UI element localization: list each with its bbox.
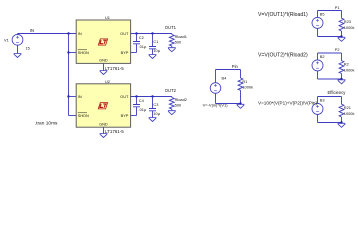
svg-text:C1: C1	[153, 39, 158, 44]
svg-text:Efficiency: Efficiency	[328, 90, 347, 95]
svg-text:GND: GND	[99, 58, 108, 63]
svg-text:B5: B5	[320, 12, 325, 17]
svg-text:.01µ: .01µ	[139, 107, 147, 112]
svg-text:Rload2: Rload2	[175, 97, 187, 102]
svg-text:V1: V1	[4, 37, 9, 42]
svg-text:500: 500	[175, 39, 182, 44]
svg-text:LT1761-5: LT1761-5	[105, 66, 124, 71]
svg-text:IN: IN	[30, 28, 34, 33]
svg-text:R2: R2	[344, 62, 349, 67]
svg-text:IN: IN	[78, 94, 82, 99]
svg-text:IN: IN	[78, 31, 82, 36]
svg-text:500: 500	[175, 102, 182, 107]
svg-text:SHDN: SHDN	[78, 50, 89, 55]
svg-text:15: 15	[26, 45, 30, 50]
svg-text:B4: B4	[222, 76, 228, 81]
svg-text:1000k: 1000k	[242, 84, 253, 89]
svg-text:1000k: 1000k	[344, 111, 355, 116]
svg-text:C4: C4	[139, 98, 145, 103]
svg-text:V=V(OUT1)*I(Rload1): V=V(OUT1)*I(Rload1)	[258, 12, 308, 18]
svg-text:R21: R21	[344, 105, 351, 110]
svg-text:OUT1: OUT1	[165, 25, 177, 30]
svg-text:BYP: BYP	[121, 113, 129, 118]
svg-text:C2: C2	[139, 35, 144, 40]
svg-text:R23: R23	[344, 19, 351, 24]
svg-text:SHDN: SHDN	[78, 113, 89, 118]
svg-text:Rload1: Rload1	[175, 34, 187, 39]
svg-text:B2: B2	[320, 54, 325, 59]
svg-text:V=100*(V(P1)+V(P2))/V(Pin): V=100*(V(P1)+V(P2))/V(Pin)	[258, 100, 318, 105]
svg-text:10µ: 10µ	[153, 111, 160, 116]
svg-text:.01µ: .01µ	[139, 44, 147, 49]
svg-text:V=-V(in)*I(V1): V=-V(in)*I(V1)	[203, 103, 229, 108]
svg-text:.tran 10ms: .tran 10ms	[35, 120, 58, 126]
svg-text:P2: P2	[335, 47, 340, 52]
svg-text:10µ: 10µ	[153, 48, 160, 53]
svg-text:B3: B3	[320, 98, 325, 103]
svg-text:V=V(OUT2)*I(Rload2): V=V(OUT2)*I(Rload2)	[258, 52, 308, 58]
svg-text:OUT: OUT	[120, 94, 129, 99]
svg-text:OUT2: OUT2	[165, 88, 177, 93]
svg-text:OUT: OUT	[120, 31, 129, 36]
svg-text:R1: R1	[242, 79, 247, 84]
svg-text:C3: C3	[153, 102, 158, 107]
svg-text:1000k: 1000k	[344, 25, 355, 30]
svg-text:1000k: 1000k	[344, 68, 355, 73]
svg-text:BYP: BYP	[121, 50, 129, 55]
svg-text:LT1761-5: LT1761-5	[105, 129, 124, 134]
svg-text:P1: P1	[335, 5, 340, 10]
svg-text:GND: GND	[99, 121, 108, 126]
svg-text:U1: U1	[105, 15, 110, 20]
svg-text:Pin: Pin	[232, 64, 239, 69]
svg-text:U2: U2	[105, 79, 110, 84]
